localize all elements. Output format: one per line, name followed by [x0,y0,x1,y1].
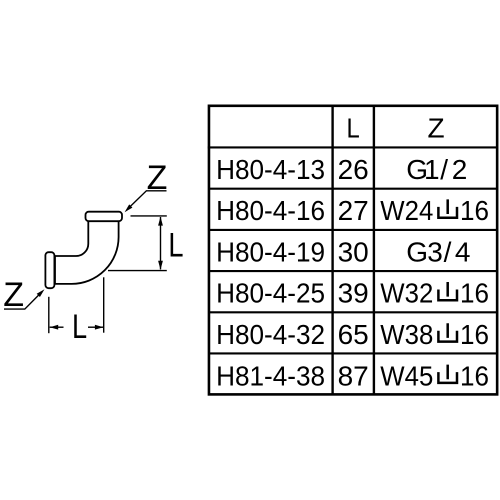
row 5: H80-4-32 [216,319,489,350]
svg-text:H80-4-25: H80-4-25 [216,278,325,309]
svg-text:39: 39 [338,278,369,309]
kanji yama row 2 [438,199,457,217]
svg-text:G: G [406,236,428,267]
elbow fitting body [55,221,119,284]
top socket cap [86,212,123,222]
kanji yama row 6 [438,365,457,383]
kanji yama row 5 [438,323,457,341]
row 6: H81-4-38 [216,360,489,391]
svg-text:H80-4-19: H80-4-19 [216,236,325,267]
row 1: H80-4-13 [216,154,467,185]
svg-text:H81-4-38: H81-4-38 [216,360,325,391]
svg-text:16: 16 [460,278,489,309]
row 4: H80-4-25 [216,278,489,309]
header cell L [347,112,360,144]
svg-text:/: / [444,236,452,267]
table row dividers [208,147,498,353]
vertical dimension L: bottom extension line [108,270,167,272]
svg-text:L: L [168,225,183,264]
label Z (top) [147,159,168,197]
svg-text:87: 87 [338,360,369,391]
table outer border [209,106,497,395]
svg-text:2: 2 [452,154,468,185]
svg-text:L: L [347,112,360,144]
svg-text:Z: Z [3,276,24,314]
table column divider 1 [331,106,333,395]
header cell Z [427,113,444,144]
row 2: H80-4-16 [216,195,489,226]
svg-text:4: 4 [455,236,471,267]
svg-text:27: 27 [338,195,369,226]
vertical dimension L: top extension line [131,215,167,217]
svg-text:1: 1 [424,154,440,185]
svg-text:/: / [440,154,448,185]
svg-text:16: 16 [460,319,489,350]
label Z (bottom left) [3,276,24,314]
svg-text:L: L [72,307,87,346]
label L (right) [168,225,183,264]
row 3: H80-4-19 [216,236,470,267]
svg-text:16: 16 [460,360,489,391]
svg-text:3: 3 [427,236,443,267]
svg-text:16: 16 [460,195,489,226]
horizontal dimension L: left extension line [48,297,50,333]
left socket cap [45,252,54,288]
vertical dimension L: dimension line with arrows [158,217,163,270]
svg-text:65: 65 [338,319,369,350]
svg-text:26: 26 [338,154,369,185]
svg-text:30: 30 [338,236,369,267]
svg-text:W32: W32 [380,278,433,309]
table column divider 2 [373,106,375,395]
horizontal dimension L: dimension line with arrows [50,325,104,330]
svg-text:H80-4-16: H80-4-16 [216,195,325,226]
label L (bottom) [72,307,87,346]
horizontal dimension L: right extension line [103,277,105,332]
svg-text:H80-4-32: H80-4-32 [216,319,325,350]
svg-text:W45: W45 [380,360,433,391]
leader for bottom Z [4,289,45,309]
svg-text:W38: W38 [380,319,433,350]
kanji yama row 4 [438,282,457,300]
leader for top Z [125,191,167,212]
svg-text:Z: Z [427,113,444,144]
svg-text:W24: W24 [380,195,433,226]
svg-text:H80-4-13: H80-4-13 [216,154,325,185]
